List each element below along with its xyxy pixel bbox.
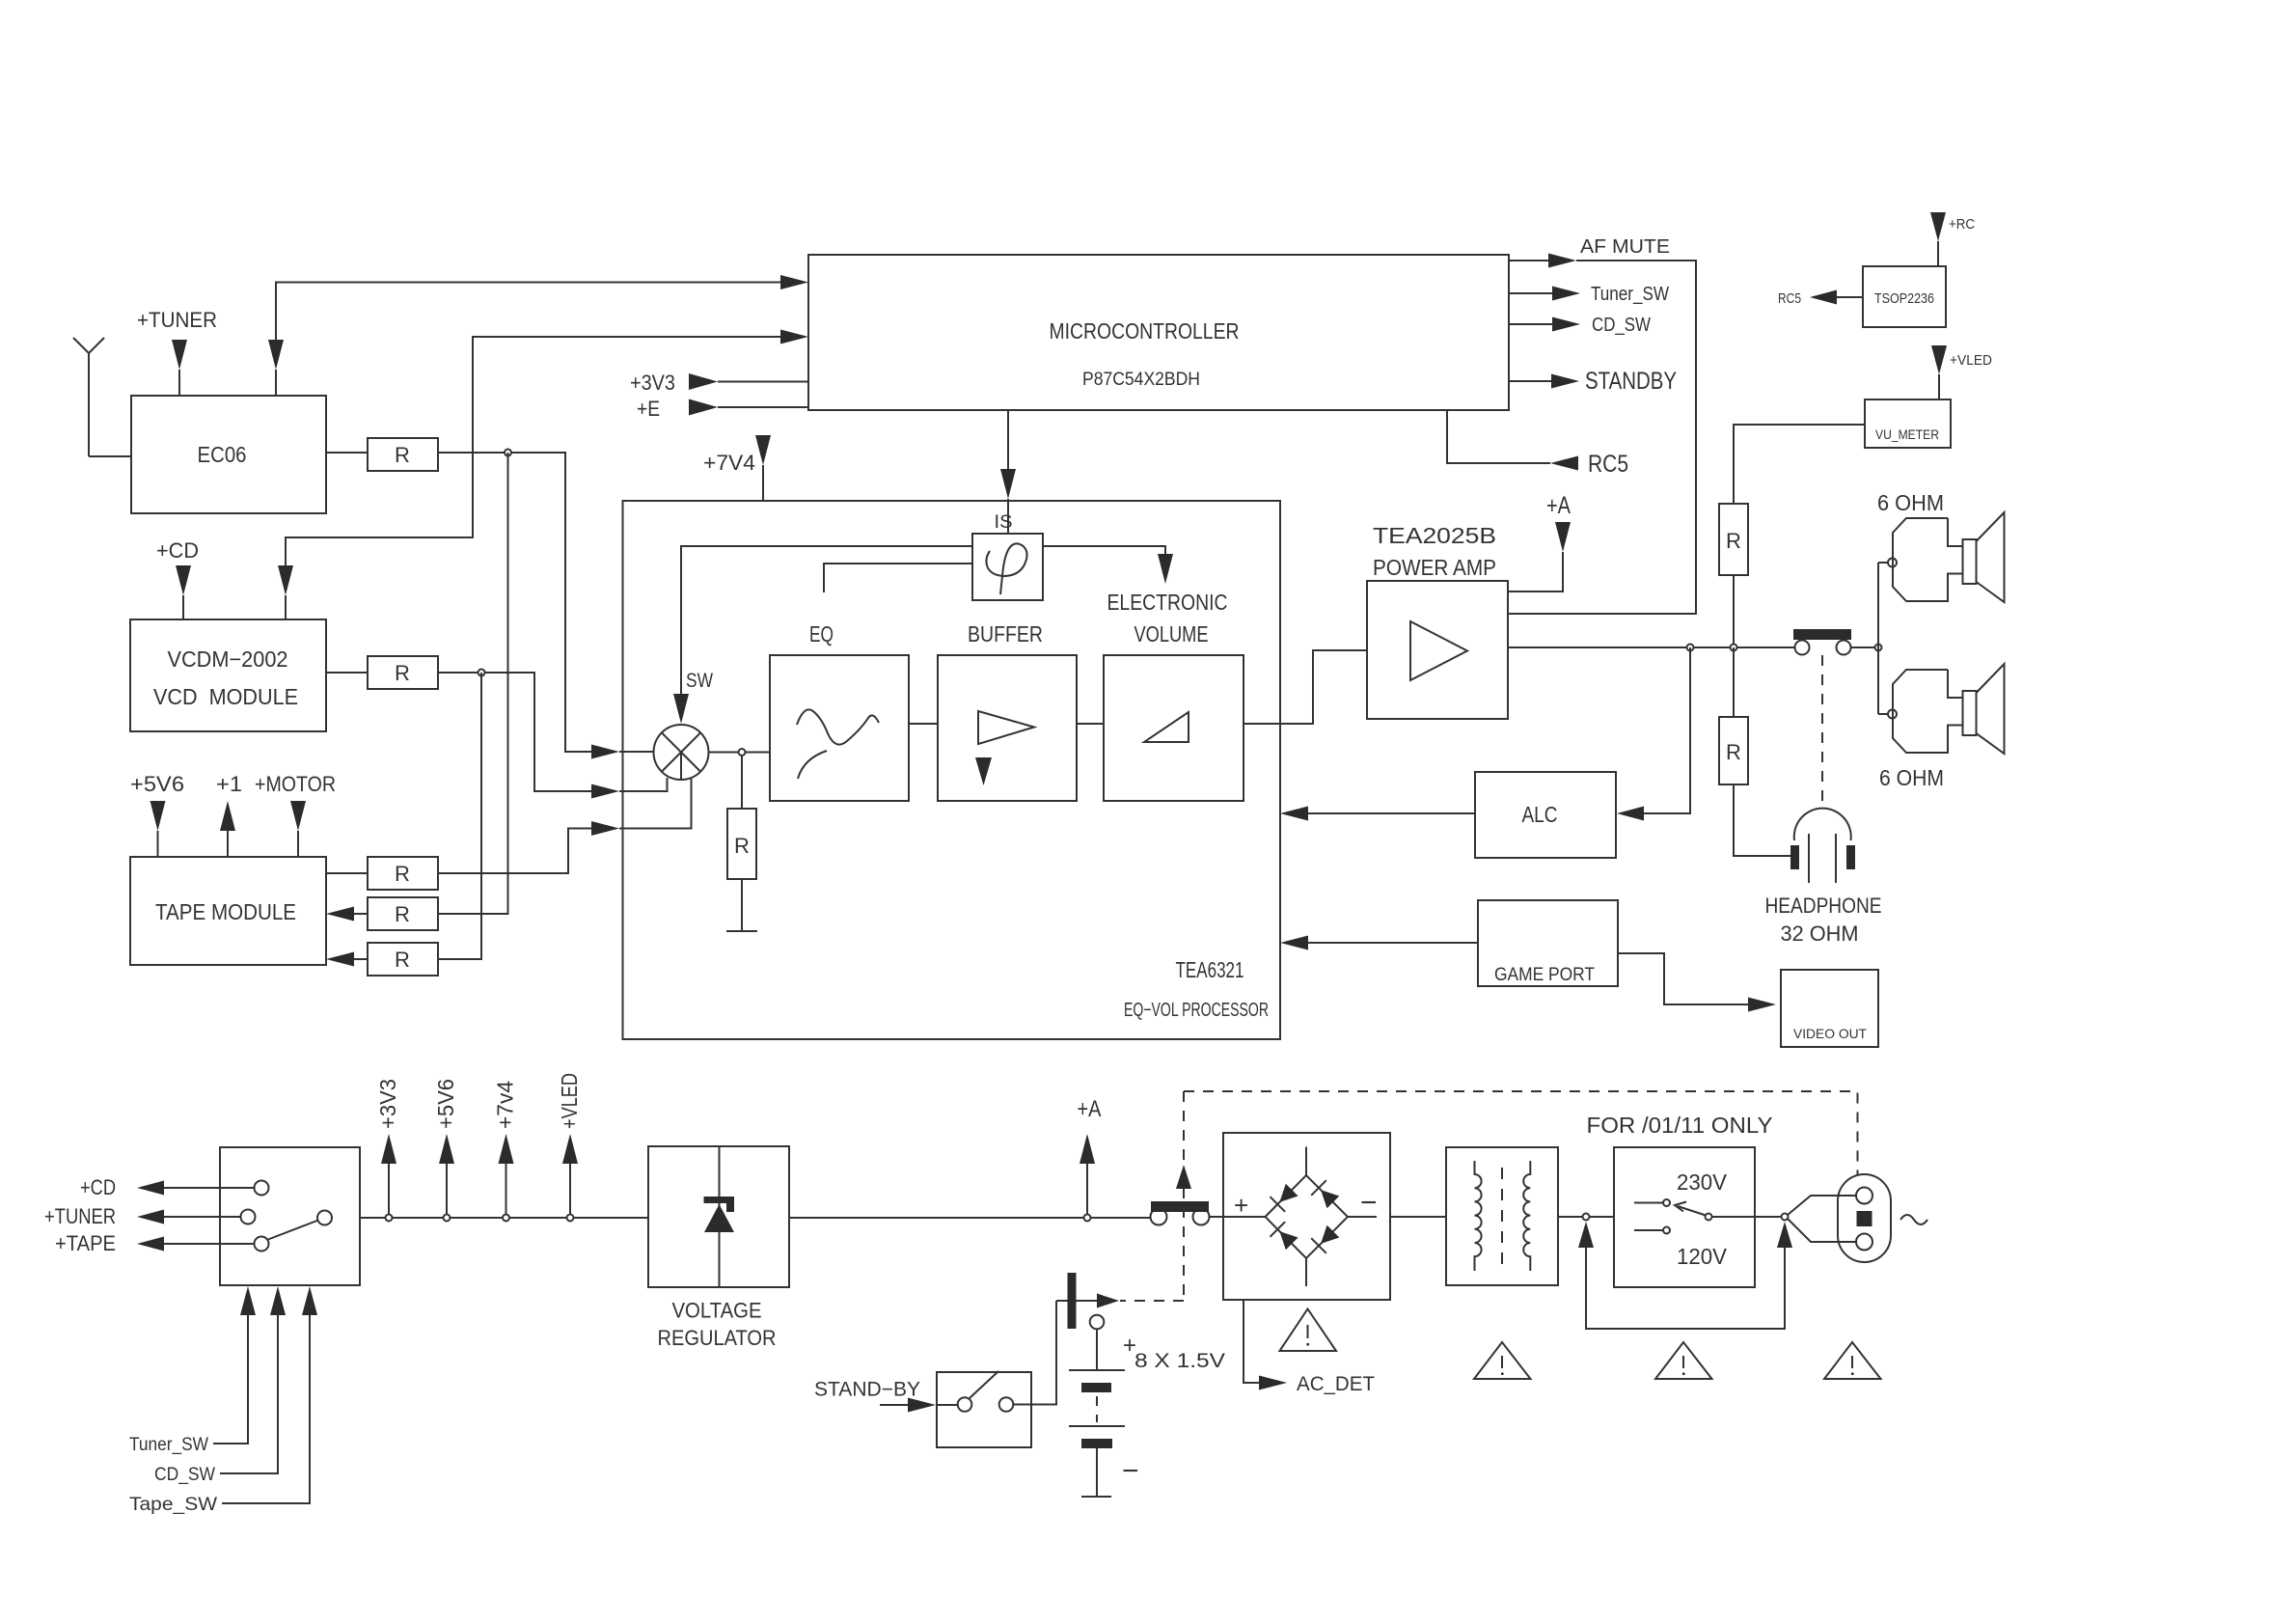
svg-text:+: +	[1234, 1191, 1248, 1220]
svg-text:TEA2025B: TEA2025B	[1373, 523, 1496, 548]
STANDBY arrow	[1551, 374, 1579, 389]
resistor R3	[368, 943, 438, 976]
GAME PORT output arrow into TEA6321	[1280, 936, 1478, 950]
svg-text:+CD: +CD	[156, 538, 199, 563]
transformer T1 box	[1446, 1147, 1558, 1285]
arrow IS to volume	[1158, 554, 1173, 584]
arrow into microcontroller input2	[780, 330, 808, 344]
resistor R (EC06 out)	[368, 438, 438, 471]
svg-text:+E: +E	[637, 397, 660, 421]
BUFFER box	[938, 655, 1077, 801]
standby link arrow	[1056, 1294, 1119, 1308]
svg-text:Tuner_SW: Tuner_SW	[129, 1435, 208, 1455]
+TUNER output wire	[164, 1216, 241, 1218]
node +7v4 junction	[503, 1215, 509, 1222]
wire junction down to tape R3	[438, 673, 481, 959]
Tape_SW control arrow	[222, 1286, 317, 1503]
+A supply arrow	[1508, 522, 1571, 591]
svg-text:R: R	[395, 661, 410, 685]
wire R to mixer input1	[438, 453, 591, 752]
power amp U-AMP box	[1367, 581, 1508, 719]
+VLED riser arrow	[562, 1134, 578, 1215]
svg-text:AC_DET: AC_DET	[1297, 1373, 1375, 1395]
resistor R2	[368, 897, 438, 930]
source select switch box	[220, 1147, 360, 1285]
EQ curve icon	[797, 709, 879, 779]
speaker feed vertical	[1877, 563, 1879, 714]
wire IS to volume	[1043, 546, 1165, 554]
svg-text:REGULATOR: REGULATOR	[658, 1326, 777, 1350]
svg-text:+5V6: +5V6	[130, 772, 184, 796]
wire antenna to EC06	[89, 455, 131, 457]
transformer secondary coil	[1523, 1161, 1530, 1271]
switch lever	[268, 1221, 318, 1240]
resistor R (mixer bias)	[727, 809, 756, 879]
volume wedge icon	[1144, 712, 1189, 742]
svg-text:+CD: +CD	[80, 1175, 116, 1199]
node +3V3 junction	[386, 1215, 393, 1222]
svg-text:EQ−VOL PROCESSOR: EQ−VOL PROCESSOR	[1124, 1000, 1269, 1021]
svg-text:120V: 120V	[1677, 1244, 1728, 1269]
arrow into microcontroller input1	[780, 275, 808, 289]
wire R to output line	[1733, 575, 1735, 647]
wire bridge to AC_DET	[1244, 1300, 1259, 1383]
wire junction to R	[741, 756, 743, 809]
svg-text:VOLTAGE: VOLTAGE	[672, 1299, 762, 1323]
CD_SW output wire	[1509, 323, 1552, 325]
arrow mixer input1	[591, 745, 654, 759]
svg-text:EC06: EC06	[198, 442, 247, 467]
power amp output line	[1508, 646, 1795, 648]
node mixer output junction	[739, 749, 746, 756]
wire R1 to mixer input3	[438, 829, 591, 874]
EQ box	[770, 655, 909, 801]
transformer primary coil	[1475, 1161, 1482, 1271]
CD_SW control arrow	[220, 1286, 286, 1473]
wire R to mixer input2	[438, 673, 591, 791]
resistor R (headphone)	[1719, 717, 1748, 784]
svg-text:TSOP2236: TSOP2236	[1874, 290, 1934, 307]
arrow micro to IS	[1000, 469, 1016, 534]
+RC supply arrow	[1930, 212, 1946, 266]
warning triangle (bridge)	[1280, 1309, 1337, 1352]
svg-text:+A: +A	[1546, 492, 1571, 519]
zener diode D1	[704, 1197, 735, 1232]
STAND-BY switch box	[937, 1372, 1031, 1447]
wire bridge to transformer	[1390, 1216, 1446, 1218]
battery cell stack	[1069, 1329, 1125, 1497]
feedback arrow 1	[1578, 1222, 1785, 1329]
IS box	[972, 534, 1043, 600]
svg-text:STANDBY: STANDBY	[1585, 368, 1677, 395]
svg-text:+TUNER: +TUNER	[137, 308, 217, 332]
AF MUTE arrow	[1548, 254, 1576, 268]
svg-text:+7V4: +7V4	[703, 451, 755, 475]
selector lever	[1675, 1202, 1706, 1216]
+TUNER supply arrow	[172, 340, 187, 396]
node +5V6 junction	[444, 1215, 451, 1222]
svg-text:GAME PORT: GAME PORT	[1494, 965, 1595, 985]
AC switch contacts	[1151, 1209, 1210, 1225]
mixer SW circle	[654, 725, 709, 780]
EC06 box	[131, 396, 326, 513]
wire junction2 to headphone R	[1733, 647, 1735, 717]
svg-text:POWER AMP: POWER AMP	[1373, 555, 1496, 580]
Tuner_SW arrow	[1552, 287, 1580, 301]
bridge diamond	[1266, 1147, 1378, 1287]
VIDEO OUT box	[1781, 970, 1878, 1047]
wire micro to IS	[1007, 410, 1009, 469]
TEA6321 big box	[623, 501, 1281, 1039]
svg-text:+RC: +RC	[1949, 216, 1975, 233]
mains plug	[1838, 1174, 1891, 1262]
wire to bottom speaker	[1878, 713, 1888, 715]
wire standby riser	[1013, 1301, 1056, 1405]
node +A junction	[1084, 1215, 1091, 1222]
node speaker junction	[1875, 645, 1882, 651]
+TAPE arrow	[137, 1237, 164, 1252]
resistor R (VCD out)	[368, 656, 438, 689]
ground	[726, 879, 757, 931]
bridge rectifier box	[1223, 1133, 1390, 1300]
+3V3 input arrow	[689, 373, 808, 390]
svg-text:+MOTOR: +MOTOR	[255, 772, 336, 796]
+E input arrow	[689, 399, 808, 416]
RC5 wire from TSOP	[1837, 296, 1863, 298]
node plug junction	[1782, 1214, 1789, 1221]
BUFFER mute arrow	[975, 757, 992, 785]
+3V3 riser arrow	[381, 1134, 396, 1215]
node junction EC06 row	[505, 450, 511, 456]
BUFFER amp triangle	[978, 711, 1034, 744]
wire VU_METER to R	[1734, 425, 1865, 504]
arrow into tape (R3 row)	[326, 952, 368, 967]
svg-text:+A: +A	[1078, 1096, 1102, 1122]
TAPE MODULE box	[130, 857, 326, 965]
microcontroller U-MICRO box	[808, 255, 1509, 410]
headphone switch bar	[1793, 629, 1851, 640]
svg-text:R: R	[395, 902, 410, 926]
ALC output arrow into TEA6321	[1280, 807, 1475, 821]
wire BUFFER to VOLUME	[1077, 723, 1104, 725]
wire junction down to tape R2	[438, 453, 508, 914]
feedback arrow 2	[1777, 1222, 1792, 1248]
AC switch bar	[1151, 1201, 1209, 1212]
TSOP2236 box	[1863, 266, 1946, 327]
Tuner_SW control arrow	[213, 1286, 256, 1444]
antenna	[73, 338, 104, 456]
svg-text:VOLUME: VOLUME	[1134, 621, 1209, 646]
standby input arrow	[880, 1398, 936, 1413]
main supply row	[360, 1217, 648, 1219]
svg-text:+TAPE: +TAPE	[55, 1231, 116, 1255]
svg-text:SW: SW	[686, 670, 713, 692]
svg-text:R: R	[1726, 529, 1741, 553]
svg-text:ALC: ALC	[1522, 802, 1558, 827]
svg-text:TEA6321: TEA6321	[1176, 957, 1244, 982]
headphone switch contacts	[1795, 641, 1851, 655]
Tuner_SW output wire	[1509, 292, 1552, 294]
wire to top speaker	[1878, 562, 1888, 564]
230V contact	[1634, 1199, 1670, 1206]
svg-text:Tuner_SW: Tuner_SW	[1591, 284, 1669, 305]
wire switch to bridge	[1210, 1216, 1266, 1218]
switch contact TUNER	[241, 1210, 256, 1224]
svg-text:+3V3: +3V3	[630, 371, 675, 395]
svg-text:230V: 230V	[1677, 1169, 1728, 1195]
svg-text:VCD MODULE: VCD MODULE	[153, 684, 298, 709]
120V contact	[1634, 1227, 1670, 1234]
voltage selector box	[1614, 1147, 1755, 1287]
svg-text:R: R	[1726, 740, 1741, 764]
resistor R (VU feed)	[1719, 504, 1748, 575]
+7V4 supply arrow	[755, 435, 771, 501]
svg-text:6 OHM: 6 OHM	[1879, 765, 1944, 790]
svg-text:IS: IS	[995, 512, 1013, 533]
+5V6 supply arrow	[150, 801, 166, 857]
wire R to headphone	[1734, 784, 1790, 856]
ALC box	[1475, 772, 1616, 858]
GAME PORT box	[1478, 900, 1618, 986]
node +VLED junction	[567, 1215, 574, 1222]
dashed headphone link	[1821, 655, 1823, 809]
svg-text:RC5: RC5	[1778, 290, 1801, 307]
diode TL	[1271, 1184, 1298, 1212]
STANDBY output wire	[1509, 380, 1551, 382]
transformer core dashed	[1501, 1168, 1503, 1266]
zener internal line	[719, 1146, 721, 1287]
svg-text:VIDEO OUT: VIDEO OUT	[1793, 1026, 1867, 1041]
+5V6 riser arrow	[439, 1134, 454, 1215]
AF MUTE wire to power amp	[1508, 261, 1696, 614]
RC5 arrow (from TSOP)	[1810, 290, 1837, 305]
svg-text:R: R	[395, 948, 410, 972]
diode BL	[1271, 1222, 1298, 1250]
wire VOLUME to power amp	[1244, 650, 1367, 724]
node feedback junction 1	[1583, 1214, 1590, 1221]
svg-text:BUFFER: BUFFER	[968, 621, 1043, 646]
svg-text:P87C54X2BDH: P87C54X2BDH	[1082, 370, 1200, 390]
wire IS to SW	[681, 546, 972, 694]
main row VR to bridge	[789, 1217, 1151, 1219]
svg-text:ELECTRONIC: ELECTRONIC	[1107, 590, 1228, 615]
selector common contact	[1706, 1214, 1712, 1221]
svg-text:R: R	[395, 862, 410, 886]
wire EQ to BUFFER	[909, 723, 938, 725]
svg-text:HEADPHONE: HEADPHONE	[1765, 894, 1882, 918]
svg-text:+VLED: +VLED	[1950, 352, 1992, 369]
CD_SW arrow	[1552, 317, 1580, 332]
svg-text:AF MUTE: AF MUTE	[1580, 236, 1670, 258]
svg-text:STAND−BY: STAND−BY	[814, 1379, 920, 1401]
dashed link up arrow	[1176, 1165, 1191, 1189]
switch contact CD	[255, 1181, 269, 1196]
RC5 input wire	[1447, 410, 1550, 463]
wire junction1 to ALC	[1644, 647, 1690, 813]
svg-text:Tape_SW: Tape_SW	[129, 1495, 217, 1515]
svg-text:−: −	[1122, 1455, 1139, 1487]
VOLTAGE REGULATOR box	[648, 1146, 789, 1287]
standby contacts	[937, 1371, 1013, 1412]
svg-text:+3V3: +3V3	[375, 1079, 400, 1129]
wire IS stub left	[824, 564, 972, 592]
speaker LS2	[1888, 664, 2005, 754]
wire transformer to 230V switch	[1558, 1216, 1614, 1218]
AC squiggle	[1900, 1215, 1927, 1224]
+MOTOR supply arrow	[290, 801, 306, 857]
svg-text:−: −	[1360, 1187, 1378, 1219]
svg-text:+VLED: +VLED	[557, 1073, 582, 1129]
switch common contact	[317, 1211, 332, 1225]
svg-text:RC5: RC5	[1588, 451, 1628, 478]
wire EC06 to R	[326, 452, 368, 454]
VU_METER box	[1865, 399, 1951, 448]
+1 output arrow (up)	[220, 801, 235, 857]
wire VCD to R	[326, 672, 368, 674]
svg-text:CD_SW: CD_SW	[1592, 315, 1651, 336]
IS phi symbol	[986, 543, 1026, 594]
RC5 arrow (into micro)	[1550, 456, 1578, 471]
wire mixer to EQ	[709, 752, 771, 754]
node output junction 2	[1731, 645, 1737, 651]
svg-text:6 OHM: 6 OHM	[1877, 490, 1944, 515]
wire tape to R1	[326, 872, 368, 874]
svg-text:CD_SW: CD_SW	[154, 1465, 215, 1485]
warning triangle 1	[1474, 1342, 1531, 1379]
wire micro input2 to VCD top	[286, 337, 780, 565]
amp triangle icon	[1410, 621, 1467, 680]
SW arrow	[673, 694, 689, 724]
dashed link path	[1120, 1091, 1858, 1301]
wire micro input1 to EC06 top	[276, 283, 780, 341]
svg-text:MICROCONTROLLER: MICROCONTROLLER	[1050, 318, 1240, 344]
diode BR	[1311, 1225, 1339, 1253]
wire to speaker junction	[1851, 646, 1875, 648]
svg-text:VU_METER: VU_METER	[1875, 426, 1939, 442]
VCDM-2002 box	[130, 619, 326, 731]
node output junction 1	[1687, 645, 1694, 651]
svg-text:FOR /01/11 ONLY: FOR /01/11 ONLY	[1587, 1113, 1773, 1138]
svg-text:32 OHM: 32 OHM	[1781, 922, 1859, 946]
arrow mixer input2	[591, 778, 668, 799]
svg-text:R: R	[395, 443, 410, 467]
svg-text:+TUNER: +TUNER	[44, 1204, 116, 1228]
svg-text:TAPE MODULE: TAPE MODULE	[155, 899, 296, 924]
+CD arrow	[137, 1181, 164, 1196]
+TAPE output wire	[164, 1243, 255, 1245]
ELECTRONIC VOLUME box	[1104, 655, 1244, 801]
svg-text:VCDM−2002: VCDM−2002	[168, 646, 288, 672]
+VLED supply arrow	[1931, 345, 1947, 399]
diode TR	[1311, 1180, 1339, 1208]
AC_DET arrow	[1259, 1376, 1287, 1390]
ALC input arrow	[1617, 807, 1644, 821]
plug fork wires	[1788, 1196, 1856, 1242]
resistor R1 (tape out)	[368, 857, 438, 890]
+TUNER arrow	[137, 1210, 164, 1224]
+CD supply arrow	[176, 565, 191, 619]
battery cutoff bar	[1068, 1273, 1077, 1329]
arrow into video out	[1748, 998, 1776, 1012]
svg-text:+5V6: +5V6	[433, 1079, 458, 1129]
arrow into tape (R2 row)	[326, 907, 368, 922]
speaker LS1	[1888, 512, 2005, 602]
node junction VCD row	[478, 670, 485, 676]
wire game port to video out	[1618, 953, 1748, 1004]
svg-text:+7v4: +7v4	[493, 1081, 518, 1129]
arrow into EC06 top	[268, 340, 284, 396]
svg-text:EQ: EQ	[809, 621, 834, 646]
warning triangle 2	[1655, 1342, 1712, 1379]
warning triangle 3	[1824, 1342, 1881, 1379]
svg-text:R: R	[734, 834, 750, 858]
+CD output wire	[164, 1187, 255, 1189]
headphone symbol	[1790, 809, 1855, 883]
wire selector to plug junction	[1712, 1216, 1782, 1218]
+7v4 riser arrow	[499, 1134, 514, 1215]
+A riser arrow	[1080, 1134, 1095, 1215]
arrow mixer input3	[591, 779, 692, 837]
AF MUTE output wire	[1509, 260, 1548, 261]
svg-text:+1: +1	[216, 772, 242, 796]
arrow into VCD top	[278, 565, 293, 619]
battery contact circle	[1090, 1315, 1105, 1330]
svg-text:8 X 1.5V: 8 X 1.5V	[1134, 1350, 1225, 1372]
switch contact TAPE	[255, 1237, 269, 1252]
